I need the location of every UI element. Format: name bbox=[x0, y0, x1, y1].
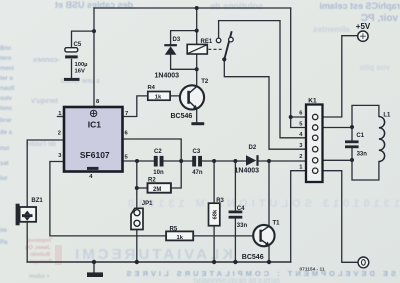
wire top rail down to K1 pins 6 and 5 bbox=[291, 8, 306, 128]
svg-text:D3: D3 bbox=[173, 37, 181, 43]
svg-text:-connes: -connes bbox=[33, 57, 60, 64]
transistor T2 bbox=[180, 85, 204, 109]
capacitor C4 bbox=[229, 211, 243, 219]
svg-text:OUTILS DE DEVELOPPEMENT: OUTILS DE DEVELOPPEMENT bbox=[192, 279, 280, 283]
wire main net IC1 pin 5 to C2 bbox=[123, 160, 154, 162]
wire R5 to T1 base bbox=[193, 235, 259, 237]
wire switch NO contact to K1 pin 4 bbox=[219, 21, 306, 138]
svg-text:13101013 SOLUTIONS M 131010: 13101013 SOLUTIONS M 131010 bbox=[124, 198, 400, 210]
wire C1 stubs bbox=[351, 127, 353, 160]
svg-text:2: 2 bbox=[58, 131, 61, 137]
svg-text:meni: meni bbox=[0, 66, 14, 72]
wire IC1 pin 1 stub bbox=[58, 116, 65, 118]
resistor R3 bbox=[209, 203, 220, 226]
buzzer BZ1 bbox=[16, 204, 36, 226]
wire K1 pin 6 right to +5V terminal bbox=[323, 36, 358, 117]
svg-text:BC546: BC546 bbox=[171, 113, 193, 120]
svg-text:2: 2 bbox=[299, 154, 302, 160]
+5V terminal bbox=[358, 31, 368, 41]
svg-text:47n: 47n bbox=[192, 170, 203, 176]
svg-text:JP1: JP1 bbox=[142, 201, 153, 207]
svg-text:33n: 33n bbox=[357, 152, 368, 158]
svg-text:071154 - 11: 071154 - 11 bbox=[300, 266, 325, 272]
capacitor C3 bbox=[192, 156, 202, 167]
svg-text:ter o: ter o bbox=[0, 76, 13, 82]
ground (main rail) bbox=[87, 272, 103, 277]
connector K1 bbox=[306, 105, 323, 183]
wire T1 collector up to D2 net bbox=[268, 161, 270, 226]
svg-text:IC1: IC1 bbox=[88, 120, 102, 130]
wire +V vertical to IC1 pin 8 bbox=[93, 8, 95, 107]
wire tank top to L1 bbox=[352, 105, 379, 127]
capacitor C1 bbox=[345, 140, 359, 148]
svg-text:1N4003: 1N4003 bbox=[155, 73, 180, 80]
svg-text:16V: 16V bbox=[75, 69, 85, 75]
svg-text:T2: T2 bbox=[201, 79, 209, 85]
wire IC1 pin 7 to R4 bbox=[123, 96, 148, 117]
svg-text:sat: sat bbox=[0, 161, 9, 167]
wire relay vertical lower to T2 collector bbox=[196, 54, 198, 86]
svg-text:100µ: 100µ bbox=[75, 62, 88, 68]
red bleed text block lower-left bbox=[25, 238, 52, 265]
wire tank bottom to L1 bbox=[352, 160, 379, 180]
left margin column of bleed text bbox=[0, 46, 14, 246]
svg-text:+ sdom: + sdom bbox=[29, 274, 50, 280]
svg-text:+5V: +5V bbox=[356, 22, 371, 31]
relay contact (switch) bbox=[208, 31, 233, 61]
svg-text:C3: C3 bbox=[193, 149, 201, 155]
ground (T2 emitter) bbox=[191, 122, 204, 125]
pin numbers IC1 bbox=[58, 99, 129, 180]
capacitor C2 bbox=[154, 156, 164, 167]
svg-text:1k: 1k bbox=[155, 95, 162, 101]
svg-text:solutions de: solutions de bbox=[210, 1, 263, 11]
pin numbers K1 bbox=[299, 111, 303, 171]
svg-text:Jaam, Oq: Jaam, Oq bbox=[25, 245, 50, 251]
wire C5 branch bbox=[72, 31, 95, 48]
svg-text:KLAVIATURECMI: KLAVIATURECMI bbox=[72, 246, 233, 263]
svg-text:nur: nur bbox=[0, 146, 10, 152]
svg-text:lur: lur bbox=[0, 176, 8, 182]
wire C3 to D2 bbox=[202, 160, 246, 162]
wire IC1 pin 3 down to R5 bbox=[50, 162, 166, 236]
svg-text:Pa: Pa bbox=[0, 240, 8, 246]
svg-text:raphiCS est celami: raphiCS est celami bbox=[319, 1, 400, 11]
inductor L1 bbox=[379, 117, 385, 162]
wire R4 to T2 base bbox=[170, 95, 188, 97]
ground (C5) bbox=[64, 78, 80, 81]
wire R2 left lead bbox=[137, 187, 148, 189]
wire R3 bottom bbox=[213, 226, 215, 262]
svg-text:BZ1: BZ1 bbox=[31, 198, 43, 204]
wire D3 top branch bbox=[171, 31, 197, 44]
capacitor C5 (polarized) bbox=[65, 48, 78, 59]
svg-text:L1: L1 bbox=[383, 113, 391, 119]
wire bottom rail bbox=[27, 261, 291, 263]
wire D2 cathode to K1 pin 2 bbox=[259, 160, 306, 162]
wire to K1 pin 6 bbox=[291, 116, 306, 118]
0V terminal bbox=[358, 257, 369, 268]
wire K1 pin 1 right to 0 terminal bbox=[323, 171, 358, 263]
wire T1 emitter to rail bbox=[268, 245, 270, 262]
svg-text:lorsqu'v: lorsqu'v bbox=[31, 98, 58, 105]
svg-text:Bulletin: Bulletin bbox=[29, 252, 50, 258]
resistor R5 bbox=[166, 231, 193, 240]
svg-text:33n: 33n bbox=[237, 223, 248, 229]
wire C2 to C3 bbox=[164, 160, 193, 162]
svg-text:lonc: lonc bbox=[0, 106, 13, 112]
svg-text:brar: brar bbox=[0, 118, 12, 124]
svg-text:68k: 68k bbox=[213, 209, 219, 219]
svg-text:2M: 2M bbox=[153, 187, 161, 193]
svg-text:R4: R4 bbox=[148, 85, 156, 91]
svg-text:RE1: RE1 bbox=[201, 39, 213, 45]
svg-text:suiv: suiv bbox=[0, 96, 13, 102]
svg-text:alimentes: alimentes bbox=[313, 25, 350, 34]
jumper JP1 bbox=[131, 208, 143, 229]
transistor T1 bbox=[253, 225, 274, 246]
diode D3 bbox=[164, 44, 177, 55]
wire T2 emitter to ground bbox=[196, 109, 198, 123]
background bleed-through texts bbox=[26, 0, 400, 148]
wire IC1 pin 6 over to C2/C3 node and down to R2 bbox=[123, 139, 182, 188]
svg-text:K1: K1 bbox=[308, 97, 317, 104]
wire K1 pin 5 right to tank bbox=[323, 127, 353, 129]
svg-text:de a: de a bbox=[0, 130, 13, 136]
svg-text:C1: C1 bbox=[356, 133, 364, 139]
svg-text:Teqolevel: Teqolevel bbox=[27, 238, 52, 244]
svg-text:nault: nault bbox=[0, 86, 14, 92]
wire ground stub center bbox=[93, 262, 95, 272]
wire BZ1 to bottom rail bbox=[26, 222, 28, 262]
svg-text:D2: D2 bbox=[249, 145, 257, 151]
svg-text:vos pilo: vos pilo bbox=[360, 63, 390, 72]
wire JP1 to bottom rail bbox=[136, 230, 138, 263]
wire C4 top bbox=[234, 161, 236, 211]
svg-text:R2: R2 bbox=[148, 178, 156, 184]
wire D3 bottom branch bbox=[171, 55, 197, 70]
svg-text:C2: C2 bbox=[154, 149, 162, 155]
svg-text:1k: 1k bbox=[177, 235, 184, 241]
svg-text:C4: C4 bbox=[237, 206, 245, 212]
wire K1 pin 1 left to rail bbox=[291, 171, 306, 262]
svg-text:C5: C5 bbox=[74, 42, 82, 48]
diode D2 bbox=[246, 155, 259, 166]
IC op-amp U1 body IC1 bbox=[64, 107, 123, 172]
resistor R2 bbox=[148, 183, 171, 193]
wire C5 to ground bbox=[71, 59, 73, 78]
wire JP1 branch from pin5 node bbox=[136, 161, 138, 208]
wire R3 top bbox=[213, 161, 215, 203]
svg-text:SF6107: SF6107 bbox=[80, 150, 110, 160]
svg-text:R5: R5 bbox=[170, 226, 178, 232]
svg-text:SE DEVELOPMENT : COMPILATEURS: SE DEVELOPMENT : COMPILATEURS LIVRES bbox=[124, 269, 396, 278]
wire C4 bottom bbox=[234, 219, 236, 263]
svg-text:R3: R3 bbox=[216, 198, 224, 204]
wire top rail bbox=[94, 7, 291, 9]
svg-text:de l'utilis: de l'utilis bbox=[26, 141, 56, 148]
svg-text:im: im bbox=[0, 228, 7, 234]
wire IC1 pin 2 to BZ1 bbox=[27, 140, 64, 207]
wire switch common to K1 pin 3 bbox=[224, 59, 306, 149]
relay coil RE1 bbox=[187, 44, 207, 54]
resistor R4 bbox=[148, 92, 170, 101]
svg-text:tern: tern bbox=[0, 56, 12, 62]
svg-text:Bnc: Bnc bbox=[0, 46, 12, 52]
svg-text:T1: T1 bbox=[273, 220, 281, 226]
svg-text:BC546: BC546 bbox=[242, 254, 264, 261]
svg-text:1N4003: 1N4003 bbox=[235, 167, 260, 174]
wire K1 pin 2 right to tank bottom bbox=[323, 159, 353, 161]
wire relay vertical upper bbox=[196, 8, 198, 44]
svg-text:7: 7 bbox=[125, 111, 128, 117]
svg-text:10n: 10n bbox=[153, 170, 164, 176]
